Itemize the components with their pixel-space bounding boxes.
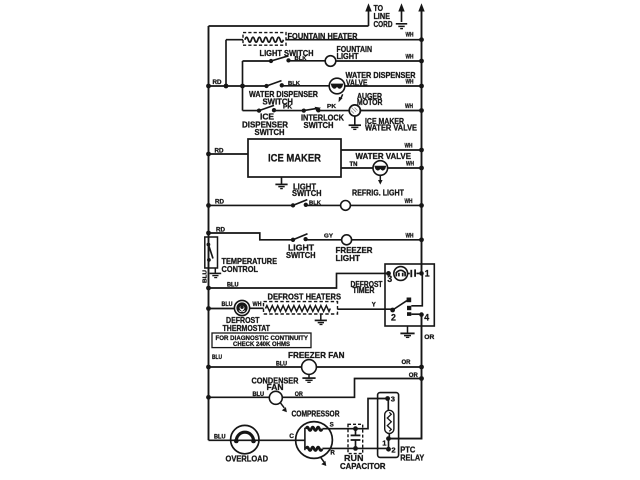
wire compressor S to PTC pin 3	[322, 399, 387, 429]
ground below freezer fan	[302, 374, 315, 382]
wire to water dispenser valve	[282, 85, 329, 87]
switch defrost timer arm	[393, 301, 407, 310]
wire fountain heater row left	[226, 39, 243, 41]
node junction refrig light / WH rail	[419, 203, 424, 208]
svg-text:WH: WH	[405, 144, 413, 150]
wire auger motor to WH rail	[360, 110, 421, 112]
svg-text:RD: RD	[215, 200, 225, 206]
svg-text:FREEZER FAN: FREEZER FAN	[288, 350, 345, 360]
svg-text:LIGHT: LIGHT	[337, 51, 360, 61]
svg-text:FAN: FAN	[267, 382, 284, 392]
node junction row4 / WH rail	[419, 108, 424, 113]
node PTC pin 1	[386, 436, 391, 441]
ground below auger motor	[349, 116, 361, 129]
svg-text:THERMOSTAT: THERMOSTAT	[223, 323, 271, 333]
node PTC pin 3	[385, 396, 390, 401]
node junction freezer light / WH rail	[419, 237, 424, 242]
heater defrost heaters element	[266, 306, 331, 312]
svg-text:Y: Y	[372, 303, 376, 309]
lamp freezer light	[342, 235, 352, 245]
svg-text:OR: OR	[424, 335, 435, 341]
box diagnostic note	[212, 333, 311, 348]
valve water dispenser valve	[329, 78, 345, 94]
node junction fountain heater / WH rail	[419, 37, 424, 42]
node junction row3 / WH rail	[419, 84, 424, 89]
label PTC RELAY	[400, 444, 424, 462]
svg-text:1: 1	[425, 268, 430, 278]
wire condenser fan jog to OR rail	[282, 379, 421, 398]
svg-text:WATER VALVE: WATER VALVE	[365, 123, 417, 133]
svg-text:WH: WH	[406, 32, 414, 38]
wire defrost heater row	[209, 308, 235, 310]
node junction feeder A	[224, 84, 229, 89]
svg-text:WH: WH	[406, 234, 414, 240]
svg-text:CAPACITOR: CAPACITOR	[340, 461, 386, 471]
wire heater to defrost timer pin 2	[338, 308, 393, 310]
wire pin1 to middle contact	[411, 273, 422, 305]
heater FOUNTAIN HEATER element	[245, 37, 283, 42]
node junction RD rail refrig light row	[206, 203, 211, 208]
switch ice dispenser switch	[257, 105, 276, 112]
svg-text:S: S	[330, 421, 334, 428]
valve ice maker water valve	[373, 161, 388, 176]
switch interlock switch	[302, 107, 321, 113]
svg-text:WH: WH	[406, 161, 414, 167]
wire light switch feeder	[242, 61, 244, 111]
svg-text:BLK: BLK	[295, 56, 307, 62]
contact defrost timer points	[408, 269, 420, 277]
wire left RD rail	[208, 26, 210, 440]
svg-text:BLK: BLK	[309, 201, 321, 207]
svg-text:3: 3	[391, 394, 395, 403]
label TO LINE CORD	[374, 4, 393, 29]
lamp fountain light	[325, 56, 336, 67]
box defrost timer	[385, 264, 434, 326]
svg-text:4: 4	[424, 312, 429, 322]
node junction RD/BLU rail heater row	[206, 306, 211, 311]
wire water dispenser valve to WH rail	[345, 85, 422, 87]
svg-text:BLU: BLU	[222, 302, 233, 308]
node junction rail condenser fan row	[206, 395, 211, 400]
svg-text:OR: OR	[409, 373, 419, 379]
motor auger motor	[349, 105, 360, 116]
node PTC pin 2	[386, 447, 391, 452]
svg-text:RD: RD	[215, 148, 225, 154]
svg-text:TN: TN	[350, 162, 358, 168]
node defrost timer pin 4	[419, 312, 424, 317]
node junction water valve / WH rail	[419, 166, 424, 171]
wire water valve to WH rail	[388, 167, 422, 169]
label TEMPERATURE CONTROL	[222, 256, 278, 274]
contact square A	[407, 298, 412, 303]
switch inside temperature control	[207, 243, 214, 262]
svg-text:PK: PK	[327, 104, 336, 110]
svg-text:TIMER: TIMER	[353, 286, 375, 295]
wire refrig light to WH rail	[350, 204, 421, 206]
svg-text:DEFROST HEATERS: DEFROST HEATERS	[268, 292, 342, 302]
node junction feeder B	[240, 84, 245, 89]
svg-text:MOTOR: MOTOR	[357, 97, 383, 107]
wire to interlock switch	[274, 110, 304, 112]
svg-text:RELAY: RELAY	[400, 452, 424, 462]
label LIGHT SWITCH freezer	[286, 242, 316, 260]
label INTERLOCK SWITCH	[301, 113, 344, 131]
wire fountain heater row right to WH rail	[286, 39, 422, 41]
wire freezer light row jog	[209, 233, 294, 240]
wire fountain light to WH rail	[336, 60, 422, 62]
svg-text:REFRIG. LIGHT: REFRIG. LIGHT	[352, 188, 405, 198]
svg-text:3: 3	[387, 274, 392, 284]
node defrost timer pin 3	[386, 271, 391, 276]
svg-text:2: 2	[391, 446, 395, 455]
svg-text:FOUNTAIN HEATER: FOUNTAIN HEATER	[288, 31, 358, 41]
ground below defrost heaters	[315, 314, 327, 325]
svg-text:CHECK 240K OHMS: CHECK 240K OHMS	[233, 341, 290, 348]
svg-text:CORD: CORD	[374, 20, 393, 29]
svg-text:SWITCH: SWITCH	[286, 250, 316, 260]
node junction RD/BLU rail	[206, 286, 211, 291]
overload protector	[231, 425, 259, 453]
label AUGER MOTOR	[357, 91, 383, 107]
node junction condenser fan / OR rail	[419, 376, 424, 381]
svg-text:OVERLOAD: OVERLOAD	[226, 454, 269, 464]
node junction fountain light / WH rail	[419, 59, 424, 64]
svg-text:SWITCH: SWITCH	[304, 120, 334, 130]
svg-text:OR: OR	[402, 360, 412, 366]
svg-text:RD: RD	[213, 80, 223, 86]
svg-text:COMPRESSOR: COMPRESSOR	[292, 409, 340, 419]
svg-text:BLU: BLU	[276, 362, 287, 368]
svg-text:WH: WH	[405, 199, 413, 205]
svg-text:ICE MAKER: ICE MAKER	[268, 152, 321, 164]
svg-text:VALVE: VALVE	[346, 78, 368, 88]
contact square B	[407, 306, 411, 310]
box PTC relay	[378, 393, 399, 458]
switch water dispenser switch	[264, 81, 284, 89]
label RUN CAPACITOR	[340, 453, 386, 471]
svg-text:BLU: BLU	[227, 282, 239, 288]
switch light switch (fountain)	[269, 56, 291, 63]
svg-text:SWITCH: SWITCH	[255, 127, 285, 137]
wire compressor R to PTC pin 2	[322, 447, 388, 449]
node junction RD rail row 3	[206, 84, 211, 89]
svg-text:RD: RD	[216, 227, 226, 233]
wire lower contact to pin 4	[411, 313, 421, 315]
heater defrost heaters dashed box	[264, 302, 338, 314]
capacitor run capacitor element	[351, 426, 361, 450]
wire condenser fan row left	[209, 396, 270, 398]
wire to refrig light	[306, 204, 341, 206]
motor defrost timer motor	[394, 267, 408, 281]
svg-text:PK: PK	[283, 104, 292, 110]
label FREEZER LIGHT	[336, 245, 373, 263]
svg-text:BLU: BLU	[214, 435, 226, 441]
ground arrow below compressor	[321, 458, 327, 466]
svg-text:BLU: BLU	[202, 270, 208, 283]
wire to ice maker box	[209, 153, 249, 155]
ground below defrost timer	[400, 326, 414, 337]
svg-text:SWITCH: SWITCH	[292, 188, 322, 198]
wire to freezer light	[306, 239, 342, 241]
wire to fountain light	[289, 60, 326, 62]
label CONDENSER FAN	[252, 375, 299, 392]
svg-text:R: R	[330, 450, 335, 457]
label WATER DISPENSER VALVE	[346, 70, 416, 88]
wire ice maker top output to WH rail	[341, 149, 422, 151]
svg-text:BLU: BLU	[212, 355, 222, 361]
motor condenser fan	[269, 391, 282, 404]
label FOUNTAIN LIGHT	[337, 44, 373, 61]
ground arrow below condenser fan	[280, 403, 287, 413]
node defrost timer pin 1	[419, 271, 424, 276]
svg-text:BLK: BLK	[288, 81, 300, 87]
lamp refrig light	[341, 201, 351, 211]
label LIGHT SWITCH refrig	[292, 181, 322, 198]
ground below ice maker box	[275, 177, 287, 189]
switch freezer light switch	[291, 234, 308, 242]
contact square C	[407, 312, 411, 316]
wire ice dispenser row	[243, 110, 260, 112]
thermostat temperature control box	[205, 237, 218, 268]
wire freezer fan to OR rail	[316, 366, 421, 368]
svg-text:CONTROL: CONTROL	[222, 264, 259, 274]
wire right rail (defrost timer pin 4 down to PTC relay)	[389, 315, 422, 439]
heater FOUNTAIN HEATER dashed box	[243, 33, 286, 46]
label DEFROST THERMOSTAT	[223, 315, 271, 333]
label WATER DISPENSER SWITCH	[249, 89, 318, 107]
wire to auger motor	[318, 110, 349, 112]
compressor motor	[296, 422, 333, 459]
node junction rail freezer fan row	[206, 365, 211, 370]
wire BLU bus to defrost timer pin 3	[209, 273, 389, 288]
ground arrow below ice maker water valve	[378, 175, 383, 184]
node defrost timer pin 2	[390, 308, 395, 313]
node junction RD rail ice maker	[206, 152, 211, 157]
svg-text:WH: WH	[405, 104, 413, 110]
node junction RD rail temp control row	[206, 231, 211, 236]
svg-text:BLU: BLU	[253, 392, 265, 398]
label ICE DISPENSER SWITCH	[242, 112, 288, 137]
wire right WH rail (top to defrost timer pin 1)	[418, 3, 424, 273]
capacitor run capacitor dashed box	[348, 424, 363, 453]
wire thermostat to heater box	[250, 307, 264, 309]
svg-text:2: 2	[391, 312, 396, 322]
node line cord arrow 1	[365, 3, 371, 26]
node junction freezer fan / OR rail	[419, 365, 424, 370]
wire freezer fan row left	[209, 366, 302, 368]
label DEFROST TIMER	[351, 280, 383, 295]
resistor PTC element	[385, 399, 394, 439]
switch refrig light switch	[291, 200, 308, 208]
wire fountain heater feeder	[225, 40, 227, 86]
svg-text:WH: WH	[253, 302, 262, 308]
node line cord arrow 2 with ground	[396, 3, 407, 28]
wire freezer light to WH rail	[352, 239, 422, 241]
wire PTC pin1 to pin2	[388, 439, 390, 450]
svg-text:OR: OR	[295, 392, 304, 398]
motor freezer fan	[302, 360, 317, 375]
svg-text:WH: WH	[406, 54, 414, 60]
wire refrig light row	[209, 204, 294, 206]
box ICE MAKER	[248, 139, 341, 177]
wire compressor row	[209, 439, 305, 441]
svg-text:WH: WH	[406, 79, 414, 85]
svg-text:WATER VALVE: WATER VALVE	[356, 151, 412, 161]
svg-text:C: C	[289, 433, 294, 440]
wire light switch row	[243, 60, 272, 62]
label ICE MAKER WATER VALVE	[365, 116, 417, 133]
svg-text:GY: GY	[324, 234, 333, 240]
ground arrow below water dispenser valve	[339, 94, 343, 102]
ground below temperature control	[210, 268, 222, 278]
wire ice maker TN output	[341, 167, 373, 169]
thermostat defrost thermostat	[234, 300, 249, 315]
svg-text:LIGHT: LIGHT	[336, 253, 361, 263]
node junction ice maker top / WH rail	[419, 148, 424, 153]
label diagnostic note	[216, 335, 309, 348]
wire top feed line	[209, 25, 369, 27]
wire water dispenser row	[209, 85, 267, 87]
